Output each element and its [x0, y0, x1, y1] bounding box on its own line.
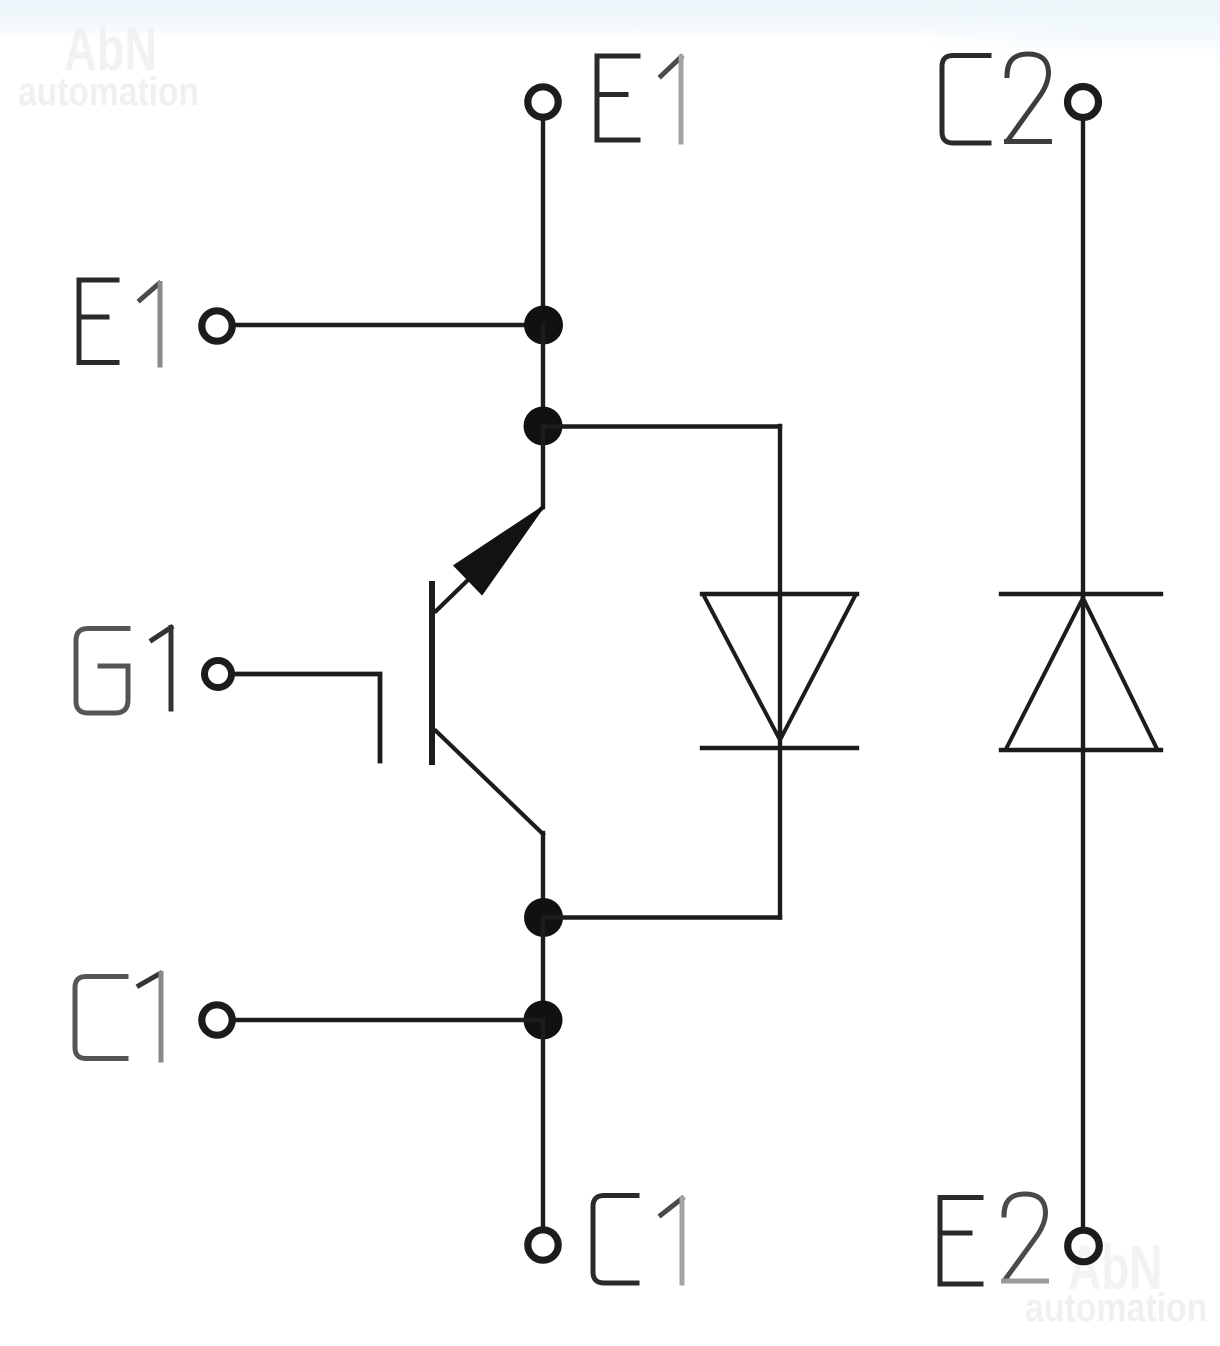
- terminal circle C2: [1068, 87, 1099, 118]
- wire: node B to diode D1 anode (right): [543, 424, 780, 428]
- label E2: [940, 1194, 1047, 1284]
- label E1 top: [597, 56, 681, 142]
- diode D2 triangle: [1006, 598, 1157, 749]
- label C1 bottom: [593, 1196, 682, 1284]
- diode D2 anode line (bottom): [1001, 748, 1161, 752]
- diode D2 cathode bar (top): [1001, 592, 1161, 596]
- label C1 left: [75, 974, 161, 1061]
- wire: E1 top terminal down to node A: [541, 120, 545, 325]
- wire: node B down to IGBT emitter elbow: [541, 426, 545, 507]
- IGBT Q1 collector diagonal: [436, 731, 543, 834]
- wire: C2 terminal down through diode D2 to E2 terminal: [1081, 120, 1085, 1226]
- top light blue band: [0, 0, 1220, 40]
- node B junction dot: [524, 407, 563, 446]
- label C2: [942, 54, 1050, 143]
- watermark automation bottom-right: [1025, 1286, 1207, 1331]
- watermark AbN bottom-right: [1068, 1232, 1163, 1304]
- watermark AbN top-left: [64, 14, 157, 85]
- diode D1 triangle: [704, 596, 855, 740]
- terminal circle C1 left: [202, 1005, 232, 1035]
- node D junction dot: [524, 1001, 563, 1040]
- watermark automation top-left: [18, 70, 199, 115]
- terminal circle C1 bottom: [528, 1230, 558, 1260]
- label G1: [76, 628, 171, 714]
- wire: diode D1 vertical (anode to cathode column): [778, 426, 782, 918]
- wire: node A to node B: [541, 325, 545, 426]
- IGBT Q1 emitter diagonal: [436, 509, 541, 611]
- terminal circle E1 top: [528, 87, 558, 117]
- IGBT Q1 gate electrode and gate wire from G1: [236, 674, 380, 761]
- terminal circle E1 left: [202, 311, 232, 341]
- terminal circle G1: [205, 661, 232, 688]
- wire: E1 left terminal to node A: [235, 323, 543, 327]
- diode D1 cathode bar: [702, 746, 857, 750]
- diode D1 anode line (top): [702, 592, 857, 596]
- label E1 left: [79, 280, 160, 365]
- wire: node C to node D: [541, 918, 545, 1021]
- top-right deeper band corner: [920, 0, 1220, 58]
- terminal circle E2: [1068, 1230, 1100, 1262]
- node C junction dot: [524, 898, 563, 937]
- IGBT Q1 emitter arrow (filled): [455, 507, 544, 595]
- wire: C1 left terminal to node D: [235, 1018, 543, 1022]
- node A junction dot: [524, 306, 563, 345]
- IGBT Q1 channel bar: [429, 584, 435, 762]
- wire: collector elbow down to node C: [541, 833, 545, 918]
- wire: node C to diode D1 cathode (right): [543, 915, 780, 919]
- wire: node D down to C1 bottom terminal: [541, 1020, 545, 1226]
